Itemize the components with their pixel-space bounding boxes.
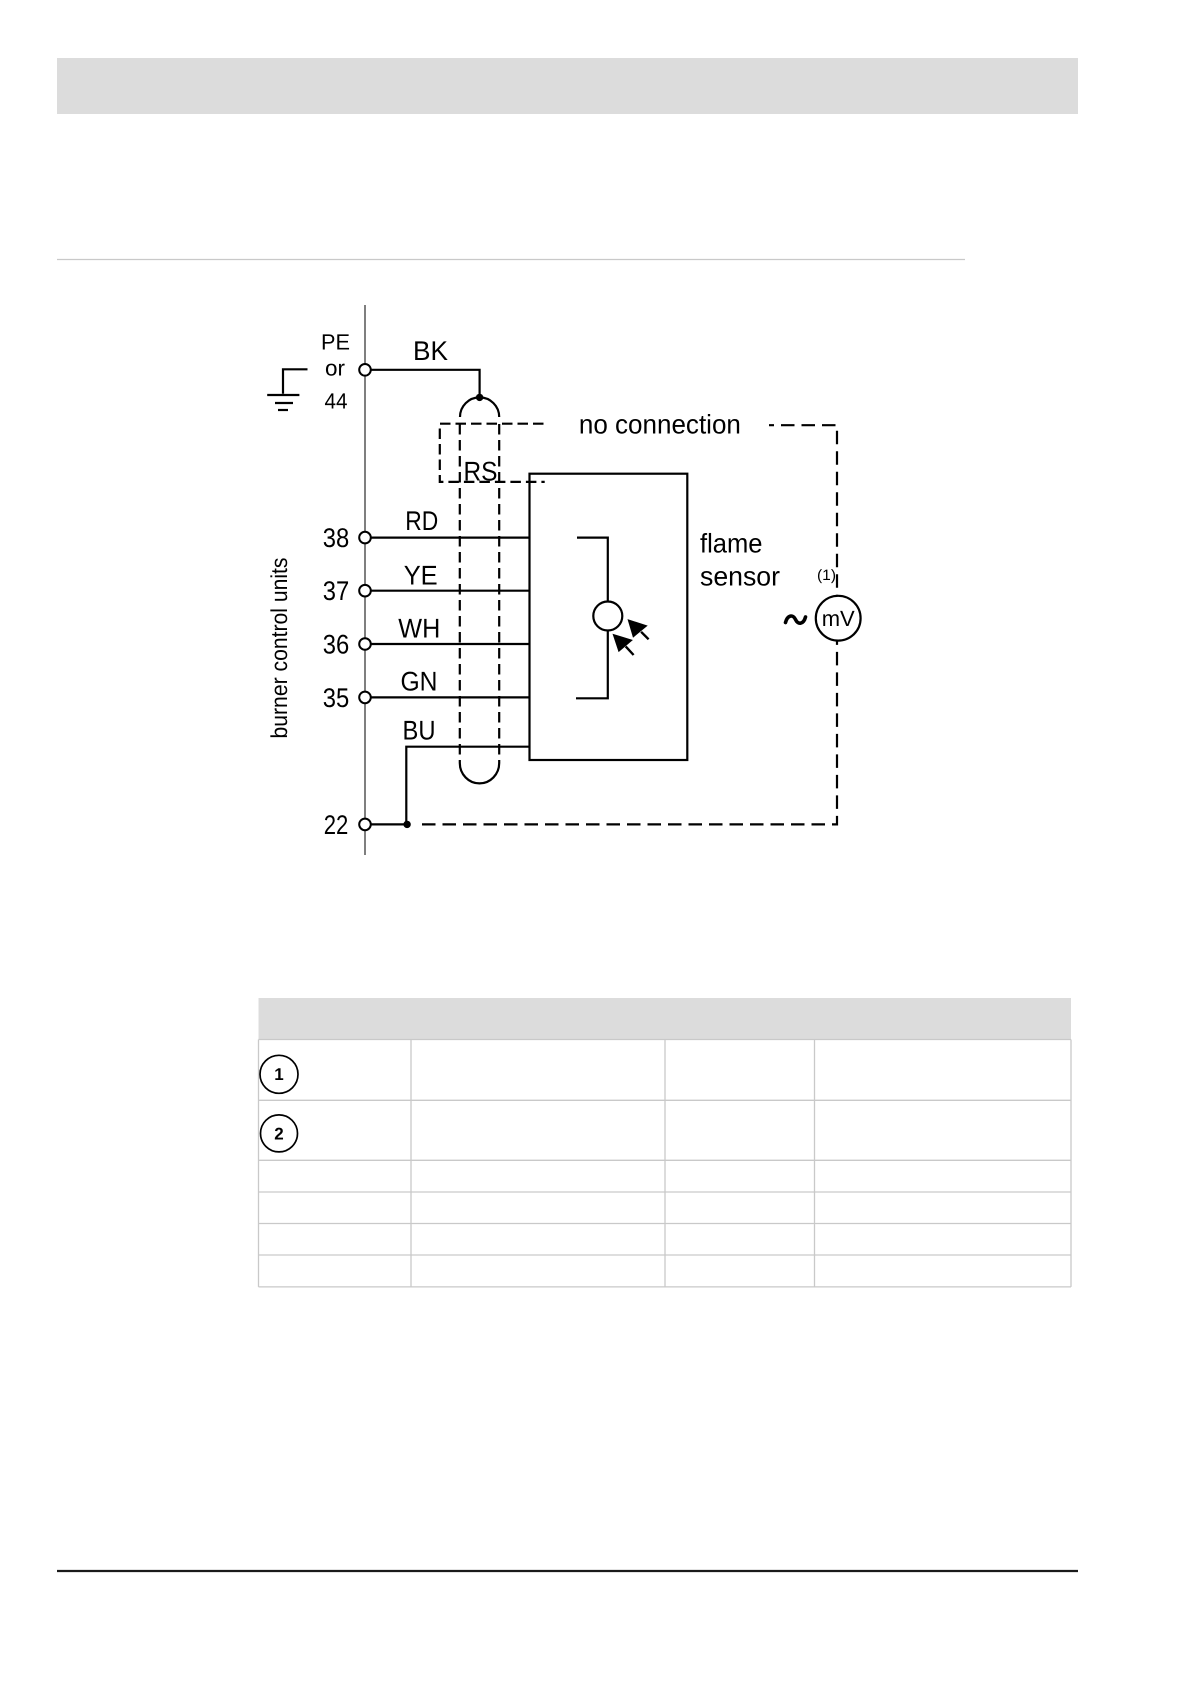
- millivoltmeter mV: [816, 596, 861, 641]
- terminal PE/44: [359, 364, 371, 376]
- svg-text:38: 38: [323, 523, 350, 553]
- svg-text:mV: mV: [822, 606, 855, 631]
- ground: [267, 369, 307, 410]
- callout 2: [261, 1115, 298, 1152]
- svg-text:burner control units: burner control units: [266, 558, 292, 739]
- svg-text:44: 44: [325, 389, 348, 414]
- terminal 22: [359, 819, 371, 831]
- terminal 35: [359, 692, 371, 704]
- svg-text:36: 36: [323, 630, 350, 660]
- svg-text:2: 2: [274, 1124, 283, 1143]
- wire BK: [371, 370, 480, 398]
- wire RD: [371, 536, 530, 538]
- svg-text:1: 1: [274, 1065, 283, 1084]
- wire WH: [371, 643, 530, 645]
- wire no connection (dashed, upper): [769, 425, 837, 596]
- flame sensor box: [530, 474, 688, 760]
- cable shield bottom arc: [460, 763, 499, 783]
- footer rule: [57, 1570, 1078, 1572]
- wire 22 to junction: [371, 823, 407, 825]
- wire no connection (dashed, lower): [422, 641, 837, 825]
- svg-text:(1): (1): [817, 567, 836, 584]
- cable shield left dashed: [459, 424, 461, 763]
- table grid: [259, 1040, 1072, 1287]
- burner control units bus: [364, 305, 366, 855]
- svg-text:GN: GN: [401, 667, 438, 697]
- RS dashed box: [440, 424, 545, 482]
- svg-text:BK: BK: [413, 336, 448, 366]
- svg-text:22: 22: [324, 810, 349, 840]
- svg-text:37: 37: [323, 576, 350, 606]
- svg-text:BU: BU: [403, 716, 436, 746]
- wire BU: [406, 747, 529, 825]
- svg-text:or: or: [325, 356, 345, 381]
- svg-text:RD: RD: [405, 506, 438, 536]
- junction dot BK-shield: [476, 394, 483, 401]
- svg-text:35: 35: [323, 683, 350, 713]
- svg-text:no connection: no connection: [579, 409, 741, 439]
- cable shield right dashed: [498, 424, 500, 763]
- svg-text:RS: RS: [464, 457, 498, 487]
- header rule: [57, 259, 965, 261]
- AC symbol: [786, 616, 806, 623]
- svg-text:YE: YE: [404, 561, 438, 591]
- svg-text:flame: flame: [700, 528, 763, 558]
- terminal 38: [359, 532, 371, 544]
- table header bar: [259, 998, 1072, 1039]
- svg-text:WH: WH: [398, 614, 440, 644]
- svg-text:PE: PE: [321, 330, 350, 355]
- photodiode circle: [593, 602, 622, 631]
- terminal 37: [359, 585, 371, 597]
- svg-text:sensor: sensor: [700, 562, 780, 592]
- light arrow 2: [613, 634, 634, 655]
- terminal 36: [359, 638, 371, 650]
- wire YE: [371, 590, 530, 592]
- header bar: [57, 58, 1078, 114]
- photodiode lead top: [577, 538, 608, 602]
- light arrow 1: [628, 619, 649, 639]
- callout 1: [260, 1055, 298, 1093]
- junction dot 22: [403, 821, 410, 828]
- photodiode lead bottom: [576, 631, 608, 699]
- wire GN: [371, 696, 530, 698]
- cable shield top arc: [460, 397, 499, 417]
